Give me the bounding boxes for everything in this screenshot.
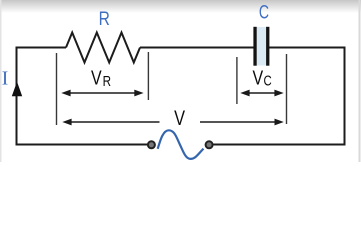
current arrow I [12,82,22,97]
measurement tick left (x=56) [56,53,58,125]
V double arrow left segment [67,121,160,123]
svg-text:V: V [174,106,185,129]
wire top-middle [140,47,254,49]
svg-text:V: V [252,65,263,88]
measurement tick VR right (x=148) [147,52,149,100]
AC sine wave [158,130,204,159]
capacitor C plates [257,27,267,66]
svg-text:R: R [103,72,112,89]
measurement tick VC left (x=237) [236,57,238,104]
V double arrow right segment [200,121,278,123]
svg-text:I: I [2,69,9,90]
svg-text:C: C [263,72,271,89]
VR double arrow [67,92,137,94]
svg-text:R: R [99,7,110,29]
wire top-right + right side + bottom-right [213,48,344,145]
VC double arrow [246,92,278,94]
svg-text:C: C [259,1,269,23]
measurement tick right (x=286) [286,54,288,124]
AC source terminal right [206,141,213,148]
svg-text:V: V [91,65,102,88]
resistor R [66,33,140,63]
AC source terminal left [148,141,155,148]
wire top-left + left side + bottom-left [17,48,148,145]
